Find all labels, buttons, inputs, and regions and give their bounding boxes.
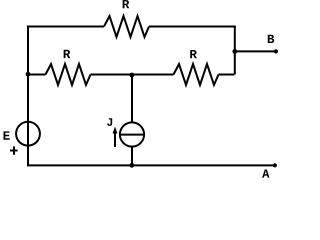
label B bbox=[268, 35, 274, 43]
junction node (left rail / middle wire) bbox=[26, 72, 31, 77]
voltage source E circle bbox=[16, 122, 40, 146]
wire bottom rail bbox=[27, 164, 275, 166]
label R (mid-right resistor) bbox=[190, 50, 197, 58]
junction node (bottom rail / J branch) bbox=[129, 163, 134, 168]
polarity plus sign bbox=[10, 146, 18, 154]
terminal A dot bbox=[273, 163, 277, 167]
wire left rail bbox=[27, 26, 29, 166]
wire middle-center segment bbox=[91, 74, 174, 76]
current direction arrow shaft bbox=[114, 130, 116, 147]
current direction arrowhead bbox=[113, 127, 118, 134]
current source J circle bbox=[120, 122, 144, 146]
resistor R2 (middle-left) bbox=[46, 64, 91, 85]
wire right rail bbox=[234, 27, 236, 75]
wire J branch upper bbox=[131, 75, 133, 124]
wire top-left segment bbox=[27, 26, 104, 28]
current source J bar bbox=[120, 134, 144, 136]
resistor R3 (middle-right) bbox=[174, 64, 219, 85]
wire J branch lower bbox=[131, 147, 133, 166]
wire middle-left segment bbox=[27, 74, 46, 76]
label J bbox=[107, 118, 112, 126]
junction node (middle wire / J branch) bbox=[129, 73, 134, 78]
terminal B dot bbox=[274, 49, 278, 53]
resistor R1 (top) bbox=[104, 16, 149, 37]
junction node (right rail / B branch) bbox=[232, 49, 237, 54]
label R (top resistor) bbox=[123, 0, 130, 8]
wire branch to terminal B bbox=[235, 50, 276, 52]
label A bbox=[262, 170, 269, 178]
label E bbox=[4, 131, 10, 139]
label R (mid-left resistor) bbox=[64, 50, 71, 58]
wire top-right segment bbox=[149, 26, 236, 28]
wire middle-right segment bbox=[219, 74, 235, 76]
